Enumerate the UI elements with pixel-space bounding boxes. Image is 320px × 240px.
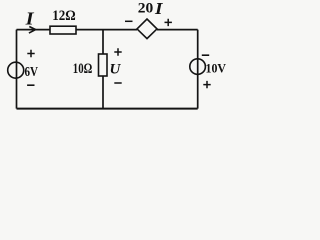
minus sign of 6V — [27, 84, 34, 86]
minus sign of U — [114, 82, 121, 84]
voltage source V1 6V circle — [8, 62, 24, 78]
wire right vertical — [197, 30, 199, 109]
svg-text:10Ω: 10Ω — [73, 61, 93, 77]
plus sign of 10V — [203, 81, 210, 88]
svg-text:20: 20 — [138, 1, 154, 17]
plus sign right of diamond — [165, 19, 172, 26]
wire top-middle segment — [76, 29, 137, 31]
wire left vertical — [16, 30, 18, 109]
svg-text:10V: 10V — [206, 60, 227, 75]
resistor R1 12ohm box — [50, 26, 76, 34]
svg-text:12Ω: 12Ω — [52, 8, 75, 24]
wire middle top segment — [102, 30, 104, 54]
wire middle bottom segment — [102, 76, 104, 109]
dependent source U1 diamond — [137, 19, 157, 39]
svg-text:I: I — [154, 0, 164, 18]
svg-text:6V: 6V — [25, 64, 39, 79]
resistor R2 10ohm box — [99, 54, 108, 76]
wire top-left segment — [17, 29, 51, 31]
voltage source V2 10V circle — [190, 59, 206, 75]
plus sign of 6V — [27, 50, 34, 57]
wire top-right segment — [157, 29, 198, 31]
minus sign of 10V — [202, 54, 209, 56]
svg-text:I: I — [25, 9, 35, 29]
plus sign of U — [114, 48, 121, 55]
minus sign left of diamond — [125, 20, 133, 22]
wire bottom — [17, 108, 198, 110]
current arrow I — [29, 27, 36, 34]
svg-text:U: U — [110, 61, 122, 77]
